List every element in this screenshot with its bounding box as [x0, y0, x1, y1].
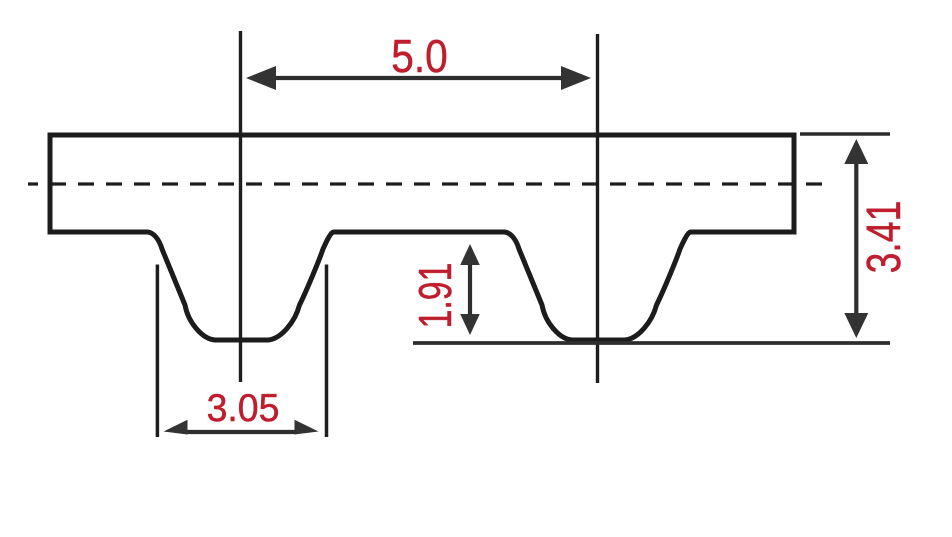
- svg-text:3.05: 3.05: [207, 386, 280, 430]
- svg-text:5.0: 5.0: [391, 32, 447, 83]
- svg-text:1.91: 1.91: [409, 263, 461, 329]
- svg-text:3.41: 3.41: [858, 201, 912, 274]
